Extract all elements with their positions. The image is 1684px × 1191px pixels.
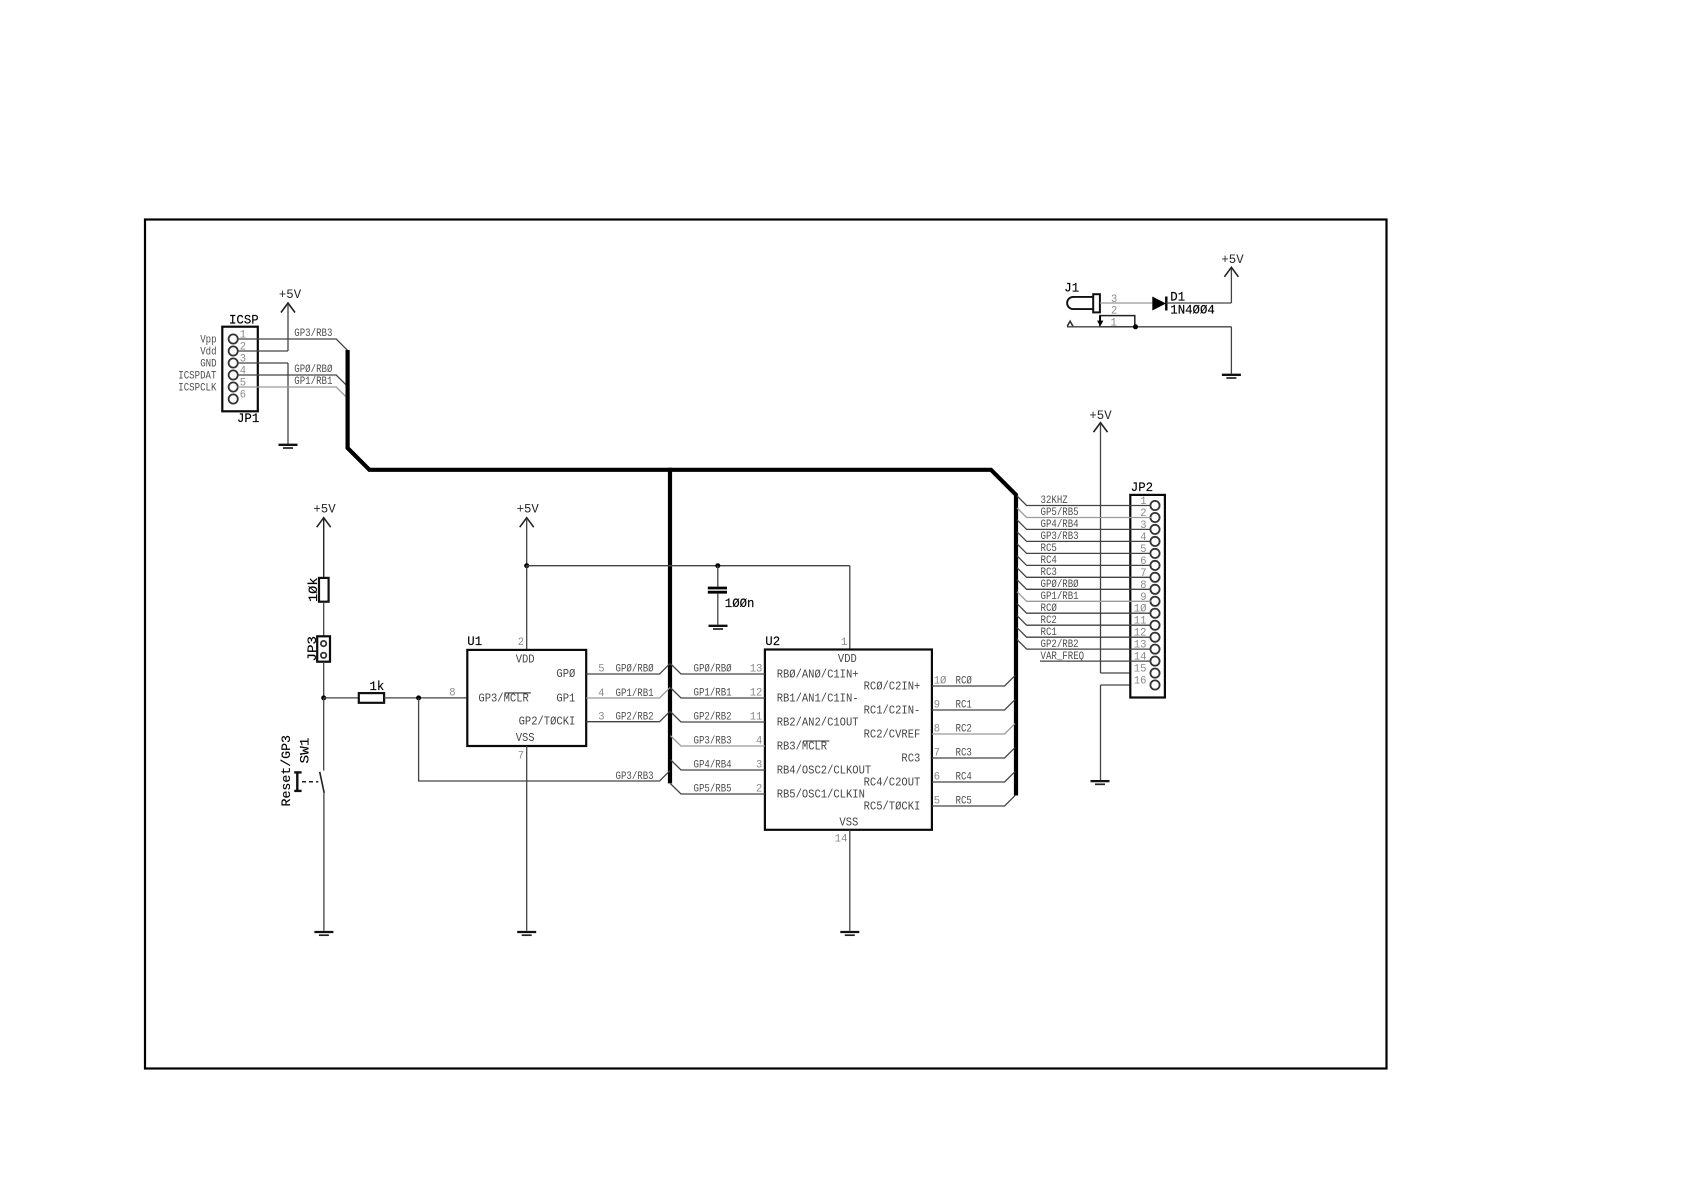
svg-text:2: 2: [518, 637, 524, 649]
wire SW1 to ground: [323, 793, 325, 931]
net label RC5 at U2: [956, 796, 972, 808]
diode D1: [1152, 297, 1166, 311]
svg-text:+5V: +5V: [1221, 252, 1243, 267]
net label GP5/RB5 at U2: [694, 784, 732, 796]
capacitor 100n: [708, 566, 727, 625]
svg-text:GP5/RB5: GP5/RB5: [1041, 507, 1079, 519]
net label RC0 at U2: [956, 676, 973, 688]
svg-text:GP3/RB3: GP3/RB3: [294, 328, 332, 340]
svg-text:GP4/RB4: GP4/RB4: [1041, 519, 1079, 531]
svg-text:1: 1: [240, 330, 247, 342]
net label GP0/RB0: [294, 364, 332, 376]
svg-text:GPØ/RBØ: GPØ/RBØ: [616, 664, 654, 676]
net label VAR_FREQ at JP2: [1041, 651, 1085, 663]
svg-text:GPØ/RBØ: GPØ/RBØ: [694, 664, 732, 676]
svg-text:GP3/RB3: GP3/RB3: [694, 736, 732, 748]
svg-text:GND: GND: [200, 358, 217, 370]
U2 pin number 3: [756, 760, 762, 772]
svg-text:RC4: RC4: [1041, 555, 1058, 567]
connector JP2 header: [1130, 495, 1165, 698]
svg-text:5: 5: [1140, 544, 1146, 556]
wire VAR_FREQ to JP2 pin 14: [1040, 660, 1151, 662]
net label RC2 at JP2: [1041, 615, 1057, 627]
net label RC5 at JP2: [1041, 543, 1057, 555]
net label GP1/RB1 at U1: [616, 688, 654, 700]
U1 pin name GP2/T0CKI: [519, 715, 576, 729]
U2 pin number 10: [934, 676, 947, 688]
svg-text:U2: U2: [765, 634, 780, 649]
U2 pin name RB2/AN2/C1OUT: [777, 716, 859, 730]
svg-text:GPØ/RBØ: GPØ/RBØ: [1041, 579, 1079, 591]
svg-text:VDD: VDD: [516, 653, 535, 667]
svg-text:3: 3: [240, 354, 246, 366]
svg-text:GP3/RB3: GP3/RB3: [616, 771, 654, 783]
svg-text:RCØ/C2IN+: RCØ/C2IN+: [864, 680, 921, 694]
net label GP3/RB3 at JP2: [1041, 531, 1079, 543]
net label GP3/RB3: [294, 328, 332, 340]
wire 10k to JP3: [323, 602, 325, 636]
svg-text:RB5/OSC1/CLKIN: RB5/OSC1/CLKIN: [777, 788, 865, 802]
U1 pin number 4: [598, 688, 605, 700]
svg-text:4: 4: [1140, 532, 1147, 544]
U2 pin name RB4/OSC2/CLKOUT: [777, 764, 872, 778]
svg-text:RC2: RC2: [1041, 615, 1057, 627]
net label RC4 at U2: [956, 772, 973, 784]
wire +5V to JP2 pin15: [1101, 424, 1151, 673]
U2 pin number 2: [756, 784, 762, 796]
net label GP3/RB3 at U2: [694, 736, 732, 748]
junction +5V rail at U1: [524, 563, 529, 568]
net label GP2/RB2 at U2: [694, 712, 732, 724]
svg-text:SW1: SW1: [298, 737, 313, 763]
svg-text:4: 4: [756, 736, 763, 748]
IC U1 body: [467, 650, 586, 746]
U2 pin number 5: [934, 796, 940, 808]
svg-text:Vdd: Vdd: [200, 346, 216, 358]
net label RC1 at U2: [956, 700, 973, 712]
net label GP0/RB0 at JP2: [1041, 579, 1079, 591]
wire GP0/RB0 bus to U2 pin 13: [670, 664, 765, 674]
U2 pin name RC1/C2IN-: [864, 704, 921, 718]
ground below U1: [517, 932, 536, 935]
value 100n: [725, 596, 755, 611]
wire node to R 1k: [324, 697, 359, 699]
ground below U2: [840, 932, 859, 935]
svg-text:JP1: JP1: [237, 411, 259, 426]
net label RC2 at U2: [956, 724, 972, 736]
svg-text:RC2/CVREF: RC2/CVREF: [864, 728, 921, 742]
net label GP0/RB0 at U2: [694, 664, 732, 676]
U2 pin number 9: [934, 700, 940, 712]
svg-text:8: 8: [1140, 580, 1146, 592]
svg-text:RCØ: RCØ: [956, 676, 973, 688]
wire GP2/RB2 to JP2 pin 13: [1017, 640, 1151, 650]
power +5V above R 10k: [313, 502, 335, 578]
svg-text:GPØ/RBØ: GPØ/RBØ: [294, 364, 332, 376]
svg-text:RC2: RC2: [956, 724, 972, 736]
label U1: [467, 634, 482, 649]
svg-text:GP1/RB1: GP1/RB1: [616, 688, 654, 700]
wire GP3/RB3 bus to U2 pin 4: [670, 736, 765, 746]
net label GP5/RB5 at JP2: [1041, 507, 1079, 519]
U1 pin number 2: [518, 637, 524, 649]
U2 pin name VSS: [839, 816, 858, 830]
svg-text:GP1/RB1: GP1/RB1: [694, 688, 732, 700]
U2 pin number 13: [750, 664, 763, 676]
wire node to SW1: [323, 698, 325, 771]
net label RC0 at JP2: [1041, 603, 1058, 615]
svg-text:13: 13: [750, 664, 763, 676]
wire RC3 U2 pin 7 to bus: [932, 748, 1015, 758]
svg-text:1: 1: [841, 637, 848, 649]
svg-text:+5V: +5V: [313, 502, 335, 517]
svg-text:6: 6: [1140, 556, 1146, 568]
svg-text:GP2/RB2: GP2/RB2: [694, 712, 732, 724]
svg-text:+5V: +5V: [279, 287, 301, 302]
net label GP0/RB0 at U1: [616, 664, 654, 676]
ground below JP2: [1091, 781, 1110, 784]
net label RC4 at JP2: [1041, 555, 1058, 567]
svg-text:GP5/RB5: GP5/RB5: [694, 784, 732, 796]
svg-text:RC3: RC3: [956, 748, 972, 760]
svg-text:GP1: GP1: [556, 691, 575, 705]
svg-text:1Øk: 1Øk: [306, 577, 321, 602]
label ICSP: [229, 313, 259, 328]
U2 pin number 6: [934, 772, 940, 784]
wire 1k to U1 pin8: [384, 697, 467, 699]
value 10k: [306, 577, 321, 602]
svg-text:RCØ: RCØ: [1041, 603, 1058, 615]
IC U2 body: [765, 650, 932, 830]
wire JP1 pin2 Vdd to +5V: [238, 350, 289, 352]
wire U1 VSS pin7 to ground: [526, 746, 528, 931]
ground below SW1: [314, 932, 333, 935]
wire J1 pin3 to D1 anode: [1100, 302, 1152, 304]
svg-text:5: 5: [934, 796, 940, 808]
svg-text:3: 3: [1111, 294, 1117, 306]
value 1k: [370, 679, 385, 694]
svg-text:ICSP: ICSP: [229, 313, 259, 328]
svg-text:GP1/RB1: GP1/RB1: [1041, 591, 1079, 603]
JP1 pin numbers 1-6: [240, 330, 247, 402]
U2 pin name RB5/OSC1/CLKIN: [777, 788, 865, 802]
label JP2: [1131, 480, 1153, 495]
svg-text:JP2: JP2: [1131, 480, 1153, 495]
svg-text:7: 7: [518, 751, 524, 763]
U2 pin name RC3: [901, 752, 920, 766]
U1 pin name GP1: [556, 691, 575, 705]
J1 plunger arrow: [1097, 316, 1103, 327]
svg-text:RBØ/ANØ/C1IN+: RBØ/ANØ/C1IN+: [777, 668, 859, 682]
svg-text:15: 15: [1134, 664, 1147, 676]
net label 32KHZ at JP2: [1041, 495, 1069, 507]
svg-text:1: 1: [1140, 496, 1147, 508]
svg-text:1N4ØØ4: 1N4ØØ4: [1170, 302, 1215, 317]
wire U2 VDD pin1: [849, 566, 851, 650]
svg-text:6: 6: [934, 772, 940, 784]
svg-text:VSS: VSS: [839, 816, 858, 830]
svg-text:2: 2: [1140, 508, 1146, 520]
U2 pin number 14: [835, 834, 848, 846]
svg-text:J1: J1: [1064, 281, 1079, 296]
wire U1 GP1 to bus: [586, 688, 670, 698]
svg-text:1k: 1k: [370, 679, 385, 694]
junction +5V rail at C1: [715, 563, 720, 568]
wire GP5/RB5 to JP2 pin 2: [1017, 508, 1151, 518]
wire GP3/RB3 from node to bus: [419, 698, 670, 781]
svg-text:ICSPDAT: ICSPDAT: [178, 370, 216, 382]
wire U1 GP2 to bus: [586, 711, 670, 721]
svg-text:2: 2: [240, 342, 246, 354]
wire GP5/RB5 bus to U2 pin 2: [670, 784, 765, 794]
wire GP0/RB0 to JP2 pin 8: [1017, 580, 1151, 590]
wire GP3/RB3 to JP2 pin 4: [1017, 532, 1151, 542]
wire JP2 pin16 to ground: [1101, 685, 1151, 780]
svg-text:3: 3: [598, 711, 604, 723]
svg-text:+5V: +5V: [517, 502, 539, 517]
wire RC4 to JP2 pin 6: [1017, 556, 1151, 566]
svg-text:RC5: RC5: [1041, 543, 1057, 555]
net label GP4/RB4 at JP2: [1041, 519, 1079, 531]
wire U1 VDD pin2: [526, 566, 528, 650]
svg-text:9: 9: [1140, 592, 1146, 604]
svg-text:RC1: RC1: [956, 700, 973, 712]
switch SW1 actuator: [294, 772, 318, 791]
U1 pin number 7: [518, 751, 524, 763]
wire RC0 U2 pin 10 to bus: [932, 676, 1015, 686]
svg-text:VSS: VSS: [516, 731, 535, 745]
connector J1 power jack: [1067, 294, 1100, 312]
wire RC1 U2 pin 9 to bus: [932, 700, 1015, 710]
wire JP1 pin1 GP3/RB3 to bus: [238, 339, 348, 350]
svg-text:1Ø: 1Ø: [934, 676, 947, 688]
J1 pin number 3: [1111, 294, 1117, 306]
JP1 pin function labels: [178, 334, 217, 394]
svg-text:14: 14: [1134, 652, 1147, 664]
wire JP3 to node: [323, 662, 325, 698]
svg-text:RC4/C2OUT: RC4/C2OUT: [864, 776, 921, 790]
U2 pin name RC5/T0CKI: [864, 800, 921, 814]
wire GP1/RB1 to JP2 pin 9: [1017, 592, 1151, 602]
power +5V above D1: [1221, 252, 1243, 277]
net label GP1/RB1: [294, 376, 332, 388]
label Reset/GP3: [279, 735, 294, 807]
svg-text:14: 14: [835, 834, 848, 846]
wire RC2 U2 pin 8 to bus: [932, 724, 1015, 734]
U2 pin name RB0/AN0/C1IN+: [777, 668, 859, 682]
wire RC2 to JP2 pin 11: [1017, 616, 1151, 626]
U2 pin name RB1/AN1/C1IN-: [777, 692, 859, 706]
svg-text:16: 16: [1134, 676, 1147, 688]
power +5V above U1: [517, 502, 539, 566]
U1 pin number 5: [598, 664, 604, 676]
svg-text:GPØ: GPØ: [556, 667, 575, 681]
svg-text:3: 3: [1140, 520, 1146, 532]
label SW1: [298, 737, 313, 763]
svg-text:JP3: JP3: [305, 636, 320, 662]
net label RC1 at JP2: [1041, 627, 1058, 639]
wire RC3 to JP2 pin 7: [1017, 568, 1151, 578]
U1 pin name GP3/MCLR with overline: [478, 691, 530, 705]
svg-text:RB2/AN2/C1OUT: RB2/AN2/C1OUT: [777, 716, 859, 730]
U2 pin number 7: [934, 748, 940, 760]
svg-text:RC4: RC4: [956, 772, 973, 784]
wire JP1 pin3 GND down: [238, 363, 289, 444]
U1 pin number 3: [598, 711, 604, 723]
svg-text:RC3: RC3: [1041, 567, 1057, 579]
switch SW1 lever: [320, 772, 325, 793]
U2 pin name VDD: [838, 652, 857, 666]
svg-text:13: 13: [1134, 640, 1147, 652]
svg-text:RC5/TØCKI: RC5/TØCKI: [864, 800, 921, 814]
svg-text:8: 8: [449, 688, 455, 700]
net label RC3 at JP2: [1041, 567, 1057, 579]
net label GP2/RB2 at JP2: [1041, 639, 1079, 651]
svg-text:12: 12: [1134, 628, 1147, 640]
net label GP4/RB4 at U2: [694, 760, 732, 772]
svg-text:RB3/MCLR: RB3/MCLR: [777, 740, 827, 754]
svg-text:GP1/RB1: GP1/RB1: [294, 376, 332, 388]
U2 pin number 12: [750, 688, 763, 700]
svg-text:12: 12: [750, 688, 763, 700]
svg-text:7: 7: [934, 748, 940, 760]
wire RC5 to JP2 pin 5: [1017, 544, 1151, 554]
U1 pin name VDD: [516, 653, 535, 667]
svg-text:RC1: RC1: [1041, 627, 1058, 639]
power +5V above JP1: [279, 287, 301, 351]
wire GP1/RB1 bus to U2 pin 12: [670, 688, 765, 698]
J1 pin number 2: [1111, 306, 1117, 318]
svg-text:11: 11: [750, 712, 763, 724]
svg-text:U1: U1: [467, 634, 482, 649]
svg-text:2: 2: [756, 784, 762, 796]
svg-text:5: 5: [598, 664, 604, 676]
svg-text:RB4/OSC2/CLKOUT: RB4/OSC2/CLKOUT: [777, 764, 872, 778]
wire GP4/RB4 bus to U2 pin 3: [670, 760, 765, 770]
svg-text:Reset/GP3: Reset/GP3: [279, 735, 294, 807]
net label RC3 at U2: [956, 748, 972, 760]
svg-text:1Ø: 1Ø: [1134, 604, 1147, 616]
junction J1 pin1 node: [1133, 324, 1138, 329]
wire +5V rail U1 to U2: [527, 565, 850, 567]
svg-text:9: 9: [934, 700, 940, 712]
connector JP1 ICSP header: [222, 327, 257, 412]
value 1N4004: [1170, 302, 1215, 317]
J1 pin number 1: [1111, 317, 1118, 329]
svg-text:RB1/AN1/C1IN-: RB1/AN1/C1IN-: [777, 692, 859, 706]
J1 switch contact box: [1100, 316, 1135, 327]
net label GP2/RB2 at U1: [616, 711, 654, 723]
svg-text:1: 1: [1111, 317, 1118, 329]
wire RC0 to JP2 pin 10: [1017, 604, 1151, 614]
wire GP4/RB4 to JP2 pin 3: [1017, 520, 1151, 530]
JP2 pin numbers 1-16: [1134, 496, 1147, 688]
svg-text:RC5: RC5: [956, 796, 972, 808]
svg-text:7: 7: [1140, 568, 1146, 580]
wire U1 GP0 to bus: [586, 664, 670, 674]
U2 pin number 11: [750, 712, 763, 724]
svg-text:1ØØn: 1ØØn: [725, 596, 755, 611]
U2 pin number 1: [841, 637, 848, 649]
power +5V above JP2: [1089, 408, 1111, 432]
label J1: [1064, 281, 1079, 296]
label JP1: [237, 411, 259, 426]
svg-text:Vpp: Vpp: [200, 334, 216, 346]
net label GP1/RB1 at JP2: [1041, 591, 1079, 603]
svg-text:4: 4: [240, 366, 247, 378]
wire J1 pin1 to ground: [1067, 327, 1231, 374]
wire JP1 pin4 GP0/RB0 to bus: [238, 375, 348, 386]
label U2: [765, 634, 780, 649]
U2 pin name RC0/C2IN+: [864, 680, 921, 694]
svg-text:ICSPCLK: ICSPCLK: [178, 382, 216, 394]
U2 pin name RB3/MCLR: [777, 740, 830, 754]
svg-text:4: 4: [598, 688, 605, 700]
net label GP1/RB1 at U2: [694, 688, 732, 700]
label JP3: [305, 636, 320, 662]
wire U2 VSS pin14 to ground: [849, 830, 851, 931]
U1 pin number 8: [449, 688, 455, 700]
bus branch down at x=670: [668, 468, 672, 784]
svg-text:3: 3: [756, 760, 762, 772]
svg-text:VDD: VDD: [838, 652, 857, 666]
svg-text:6: 6: [240, 390, 246, 402]
wire RC1 to JP2 pin 12: [1017, 628, 1151, 638]
wire D1 cathode to +5V: [1166, 268, 1231, 303]
svg-text:11: 11: [1134, 616, 1147, 628]
wire RC5 U2 pin 5 to bus: [932, 796, 1015, 806]
svg-text:VAR_FREQ: VAR_FREQ: [1041, 651, 1085, 663]
resistor 1k: [359, 693, 384, 703]
svg-text:8: 8: [934, 724, 940, 736]
jumper JP3: [317, 636, 330, 661]
net label GP3/RB3 low: [616, 771, 654, 783]
schematic border frame: [145, 220, 1387, 1069]
ground below J1: [1222, 375, 1241, 378]
svg-text:GP3/RB3: GP3/RB3: [1041, 531, 1079, 543]
svg-text:32KHZ: 32KHZ: [1041, 495, 1069, 507]
ground below C: [709, 626, 728, 629]
wire JP1 pin5 GP1/RB1 to bus: [238, 387, 348, 398]
svg-text:+5V: +5V: [1089, 408, 1111, 423]
U1 pin name GP0: [556, 667, 575, 681]
junction node GP3: [416, 695, 421, 700]
ground below JP1: [279, 445, 298, 448]
svg-text:GP2/RB2: GP2/RB2: [1041, 639, 1079, 651]
label D1: [1170, 289, 1185, 304]
svg-text:5: 5: [240, 378, 246, 390]
junction node MCLR left: [321, 695, 326, 700]
U2 pin number 8: [934, 724, 940, 736]
svg-text:GP4/RB4: GP4/RB4: [694, 760, 732, 772]
svg-text:GP2/RB2: GP2/RB2: [616, 711, 654, 723]
resistor 10k: [319, 578, 329, 602]
U2 pin name RC4/C2OUT: [864, 776, 921, 790]
wire GP2/RB2 bus to U2 pin 11: [670, 712, 765, 722]
U1 pin name VSS: [516, 731, 535, 745]
svg-text:GP2/TØCKI: GP2/TØCKI: [519, 715, 576, 729]
bus main thick line: [348, 350, 1016, 796]
svg-text:RC3: RC3: [901, 752, 920, 766]
U2 pin number 4: [756, 736, 763, 748]
U2 pin name RC2/CVREF: [864, 728, 921, 742]
wire RC4 U2 pin 6 to bus: [932, 772, 1015, 782]
J1 spring contact: [1067, 321, 1073, 326]
wire 32KHZ to JP2 pin 1: [1017, 496, 1151, 506]
svg-text:RC1/C2IN-: RC1/C2IN-: [864, 704, 921, 718]
